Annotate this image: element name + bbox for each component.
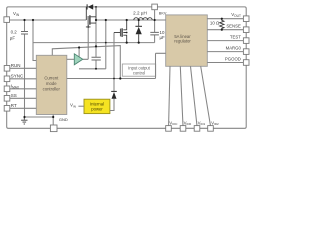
transistor Q2 NMOS [114,20,127,43]
diode D3 internal power [111,91,117,98]
svg-text:RT: RT [11,103,17,108]
svg-text:10 Ω: 10 Ω [210,21,220,26]
svg-text:2.2 µH: 2.2 µH [133,11,147,16]
diode D1 body diode [87,4,93,9]
pin MARG0 [226,45,249,54]
pin VIN [4,11,20,22]
svg-text:VID0: VID0 [184,120,192,126]
wire vid pin 4 [201,66,211,126]
current mode controller U1 [36,55,67,114]
svg-text:control: control [133,70,145,75]
svg-text:µF: µF [160,35,166,40]
wire imax [10,88,37,90]
svg-text:µF: µF [10,36,16,41]
wire internal power diode lead [110,33,114,111]
svg-text:mode: mode [46,81,57,86]
svg-text:controller: controller [43,86,61,91]
wire margn [207,51,243,53]
input output control box [122,64,155,76]
wire pgood [207,62,243,64]
wire amp input [67,58,75,60]
wire controller gnd [25,115,54,126]
module frame [7,7,247,128]
capacitor C3 10uF [150,32,159,35]
capacitor C1 [92,57,101,60]
wire 0.2uF leads [24,20,26,117]
pin VID1 [194,120,205,131]
wire vout [207,18,243,20]
diode D2 catch diode [135,20,142,43]
svg-text:VIOC: VIOC [169,120,178,126]
svg-text:IMAX: IMAX [11,84,20,90]
wire intvcc [52,46,120,79]
capacitor C4 0.2uF [21,32,28,35]
wire VIN main rail [10,19,166,21]
svg-text:VID1: VID1 [198,120,206,126]
svg-text:VIN: VIN [70,103,76,109]
pin PGOOD [225,56,249,65]
pin VID0 [180,120,191,131]
svg-text:Current: Current [44,76,59,81]
transistor Q1 PMOS [86,7,96,28]
wire amp output / gate drive [83,25,88,60]
wire amp top bias [78,48,80,57]
wire vioc to regulator [156,53,166,78]
wire node riser [105,20,107,69]
ground [21,117,27,124]
wire cap C1 leads [95,20,97,69]
wire vid pin 3 [191,66,198,126]
wire bias stub [154,10,156,20]
svg-text:0.2: 0.2 [11,30,18,35]
pin RT [4,103,17,111]
internal power block U3 [84,99,110,113]
wire vioc pin 1 [169,66,170,126]
pin SS [4,93,17,101]
op-amp U4 gate driver [74,54,83,65]
pin TEST [230,34,249,43]
svg-text:PGOOD: PGOOD [225,56,241,61]
wire vid pin 2 [180,66,183,126]
svg-text:power: power [91,107,103,112]
svg-text:regulator: regulator [174,39,191,44]
svg-text:MARG0: MARG0 [226,45,242,50]
wire ground bus [33,42,155,44]
svg-text:GND: GND [59,117,68,122]
svg-text:VID2: VID2 [211,120,219,126]
inductor L1 2.2uH [134,18,152,20]
pin VID2 [208,120,219,131]
pin IMAX [4,84,20,92]
pin GND [50,117,68,132]
wire sense [207,29,243,31]
wire run [10,67,37,69]
pin RUN [4,63,20,71]
svg-text:BKV: BKV [159,12,167,16]
pin VIOC [166,120,179,131]
resistor R1 10ohm [220,19,224,30]
wire rt [10,107,37,109]
5A linear regulator U2 [166,15,208,66]
wire ioc lower [67,78,156,80]
pin SENSE [226,24,249,33]
wire test [207,40,243,42]
wire ss [10,97,37,99]
pin SYNC [4,74,24,82]
pin BIAS [152,4,167,15]
svg-text:SENSE: SENSE [226,24,241,29]
wire caps return [79,68,106,70]
wire internal power vin [78,105,84,107]
svg-text:SS: SS [11,93,17,98]
svg-text:SYNC: SYNC [11,74,24,79]
wire VIN branch to controller [33,20,36,61]
wire 10uF leads [154,20,156,43]
svg-text:RUN: RUN [11,63,21,68]
wire sync [10,78,37,80]
pin VOUT [231,12,249,22]
svg-text:TEST: TEST [230,34,241,39]
